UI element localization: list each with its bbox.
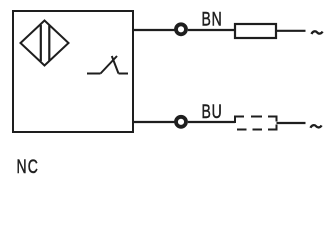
wire: box to BU terminal: [134, 121, 175, 123]
wire: box to BN terminal: [134, 29, 175, 31]
dashed load box: bottom middle dash: [253, 129, 263, 131]
svg-text:BU: BU: [202, 101, 223, 123]
sensor body box: [13, 11, 133, 132]
diamond inner line left: [40, 25, 42, 61]
diamond inner line right: [48, 26, 50, 61]
NC contact switch: right lead: [119, 73, 129, 75]
wire: BU terminal to dashed load: [188, 121, 235, 123]
svg-text:BN: BN: [202, 8, 223, 30]
wire: dashed load to source: [277, 122, 306, 124]
svg-text:NC: NC: [17, 156, 39, 176]
NC contact switch: lever: [101, 56, 118, 74]
NC contact switch: left lead: [87, 73, 101, 75]
terminal node (BN): [176, 24, 186, 34]
AC source symbol ~ (top): [312, 31, 323, 34]
dashed load box: top middle dash: [251, 116, 262, 118]
wire: BN terminal to load: [188, 29, 235, 31]
load resistor (solid box): [235, 24, 276, 38]
inductive sensor symbol (diamond): [21, 21, 69, 66]
dashed load box: top-left corner dash: [235, 117, 244, 124]
dashed load box: bottom-left dash: [237, 129, 247, 131]
wire: load to source: [276, 30, 306, 32]
NC contact switch: crossing drop line: [112, 56, 119, 74]
dashed load box: top-right corner dash: [268, 117, 277, 122]
dashed load box: bottom-right corner dash: [268, 125, 277, 130]
terminal node (BU): [176, 117, 186, 127]
AC source symbol ~ (bottom): [311, 125, 322, 128]
